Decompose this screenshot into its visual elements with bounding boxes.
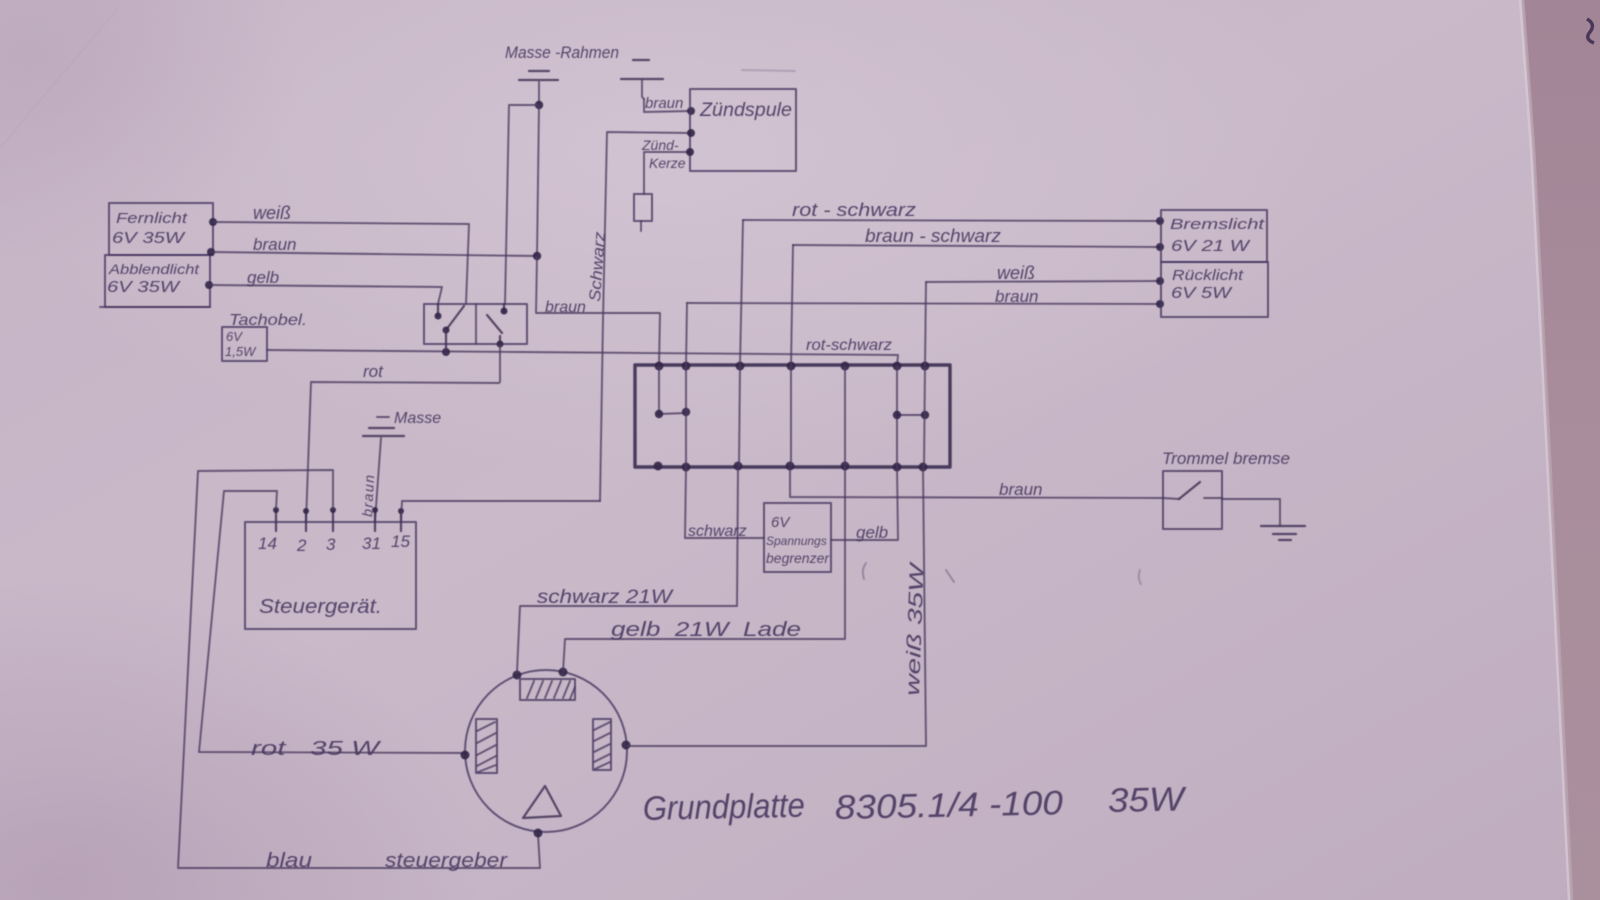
svg-text:rot - schwarz: rot - schwarz [792, 200, 916, 220]
svg-text:braun: braun [645, 95, 683, 112]
generator triangle [523, 786, 561, 818]
wire weiss 35W to generator [627, 467, 929, 746]
svg-text:gelb 21W Lade: gelb 21W Lade [611, 619, 801, 641]
wire rot: switch to pin 2 [306, 362, 499, 522]
svg-text:braun: braun [253, 235, 296, 254]
generator top coil (hatched) [520, 679, 575, 700]
svg-text:15: 15 [391, 532, 410, 551]
svg-text:3: 3 [326, 535, 336, 554]
pin 2 [296, 508, 309, 555]
faint overshoot above coil [742, 70, 795, 71]
svg-text:gelb: gelb [856, 523, 888, 542]
svg-text:35W: 35W [1107, 780, 1187, 820]
junction box internal wire at x740 [739, 366, 740, 466]
svg-text:Steuergerät.: Steuergerät. [259, 596, 382, 618]
headlight dimmer switch [424, 304, 527, 352]
junction box internal wire at x791 [790, 366, 792, 466]
wire switch to rot line [499, 344, 501, 382]
svg-text:31: 31 [362, 534, 381, 553]
title Grundplatte 8305.1/4-100 35W [642, 780, 1187, 828]
svg-text:weiß: weiß [997, 263, 1035, 283]
spark plug Zuendkerze [634, 137, 694, 231]
svg-text:Kerze: Kerze [649, 155, 686, 171]
svg-text:14: 14 [258, 534, 277, 553]
headlight low beam Abblendlicht 6V 35W [100, 255, 210, 307]
wire braun-schwarz to Bremslicht [791, 226, 1164, 366]
junction node at (539,105) [535, 101, 543, 109]
pin 31 [362, 507, 381, 553]
brake light Bremslicht 6V 21W [1161, 210, 1267, 262]
svg-text:begrenzer: begrenzer [766, 550, 830, 566]
svg-text:rot: rot [363, 362, 384, 381]
svg-text:Spannungs: Spannungs [766, 534, 827, 548]
generator terminal nodes [513, 671, 522, 680]
svg-text:braun: braun [545, 299, 586, 316]
wire braun to Trommelbremse [790, 466, 1163, 499]
svg-text:Zünd-: Zünd- [641, 137, 679, 153]
wire weiss to Ruecklicht [925, 263, 1164, 366]
svg-text:2: 2 [296, 536, 307, 555]
svg-text:6V 5W: 6V 5W [1171, 285, 1233, 302]
wire rot-schwarz bus from Tachobel to junction box [267, 348, 898, 366]
ground at ignition coil [621, 60, 663, 99]
speedometer light Tachobel 6V 1,5W [222, 312, 307, 361]
svg-text:8305.1/4 -100: 8305.1/4 -100 [834, 784, 1063, 827]
svg-text:braun - schwarz: braun - schwarz [865, 226, 1001, 246]
junction box (thick rectangle) [635, 365, 950, 467]
wire braun into coil [644, 99, 690, 112]
svg-text:Trommel bremse: Trommel bremse [1162, 449, 1290, 468]
junction box internal wire at x686 [685, 366, 687, 467]
svg-text:schwarz 21W: schwarz 21W [537, 587, 674, 608]
pin 3 [326, 507, 336, 554]
ground at Trommelbremse [1261, 526, 1305, 540]
junction box internal wire at x925 [924, 366, 925, 467]
wire rot-schwarz to Bremslicht [740, 200, 1164, 366]
svg-text:6V 35W: 6V 35W [107, 279, 181, 296]
svg-text:6V 35W: 6V 35W [112, 230, 186, 247]
wire schwarz to voltage regulator [685, 467, 764, 540]
junction box internal wire at x845 [844, 366, 846, 466]
wire pin 3 to blau steuergeber [178, 470, 540, 872]
svg-text:6V 21 W: 6V 21 W [1171, 238, 1251, 255]
wire from Masse-Rahmen ground down [538, 82, 540, 105]
generator right coil (hatched) [593, 719, 611, 770]
ground Masse-Rahmen [505, 43, 619, 80]
svg-text:Fernlicht: Fernlicht [116, 210, 188, 227]
wire masse down to braun junction [537, 105, 539, 256]
wire braun to Ruecklicht [686, 287, 1164, 366]
generator left coil (hatched) [476, 719, 497, 773]
junction box internal link right pair [893, 411, 929, 419]
generator Grundplatte circle [465, 670, 627, 832]
svg-text:6V: 6V [226, 329, 243, 344]
svg-text:weiß 35W: weiß 35W [902, 560, 929, 696]
svg-text:gelb: gelb [247, 268, 279, 287]
wire gelb from voltage regulator [831, 467, 898, 542]
svg-text:Zündspule: Zündspule [699, 100, 792, 121]
control unit Steuergeraet [245, 522, 416, 629]
wire schwarz: coil to steuergeraet pin15 [600, 132, 690, 501]
wire gelb: Abblendlicht to switch [205, 268, 442, 304]
junction box bottom nodes [654, 462, 928, 472]
pin 15 [391, 508, 410, 551]
wire Trommelbremse to ground [1222, 499, 1280, 526]
wire gelb 21W Lade to generator [563, 466, 845, 672]
svg-text:rot-schwarz: rot-schwarz [806, 337, 892, 354]
svg-text:6V: 6V [771, 514, 791, 531]
ignition coil Zuendspule [690, 89, 796, 171]
junction box internal wire at x659 with link [655, 366, 690, 418]
svg-text:1,5W: 1,5W [225, 344, 257, 359]
drum brake switch Trommelbremse [1162, 449, 1290, 529]
junction box internal wire at x897 [896, 366, 898, 467]
svg-text:Abblendlicht: Abblendlicht [108, 261, 200, 277]
voltage regulator 6V Spannungsbegrenzer [764, 503, 831, 572]
pin 14 [258, 507, 279, 553]
svg-text:Masse -Rahmen: Masse -Rahmen [505, 43, 619, 62]
ground Masse at Steuergeraet [363, 410, 441, 436]
stray pencil marks [863, 563, 866, 579]
wire weiss: Fernlicht to switch [209, 203, 469, 304]
svg-text:weiß: weiß [253, 203, 291, 223]
wire braun: headlights to junction box [207, 235, 660, 366]
wire pin 15 to schwarz riser [401, 501, 600, 522]
tail light Ruecklicht 6V 5W [1161, 262, 1268, 317]
wire schwarz 21W to generator [517, 466, 738, 672]
wire pin 31 to Masse ground, label braun vertical [359, 438, 381, 521]
svg-text:Masse: Masse [394, 410, 441, 427]
svg-text:braun: braun [999, 480, 1042, 499]
headlight high beam Fernlicht 6V 35W [109, 203, 213, 255]
svg-text:Rücklicht: Rücklicht [1172, 267, 1244, 284]
junction box top nodes [655, 362, 930, 371]
svg-text:braun: braun [995, 287, 1038, 306]
svg-text:Bremslicht: Bremslicht [1170, 216, 1265, 233]
svg-text:Grundplatte: Grundplatte [642, 787, 805, 828]
svg-text:rot 35 W: rot 35 W [251, 738, 382, 760]
svg-text:blau: blau [266, 850, 312, 872]
wire pin 14 to rot 35W generator coil [199, 491, 466, 760]
wire masse to right light-switch [505, 105, 539, 304]
svg-text:steuergeber: steuergeber [385, 850, 509, 872]
